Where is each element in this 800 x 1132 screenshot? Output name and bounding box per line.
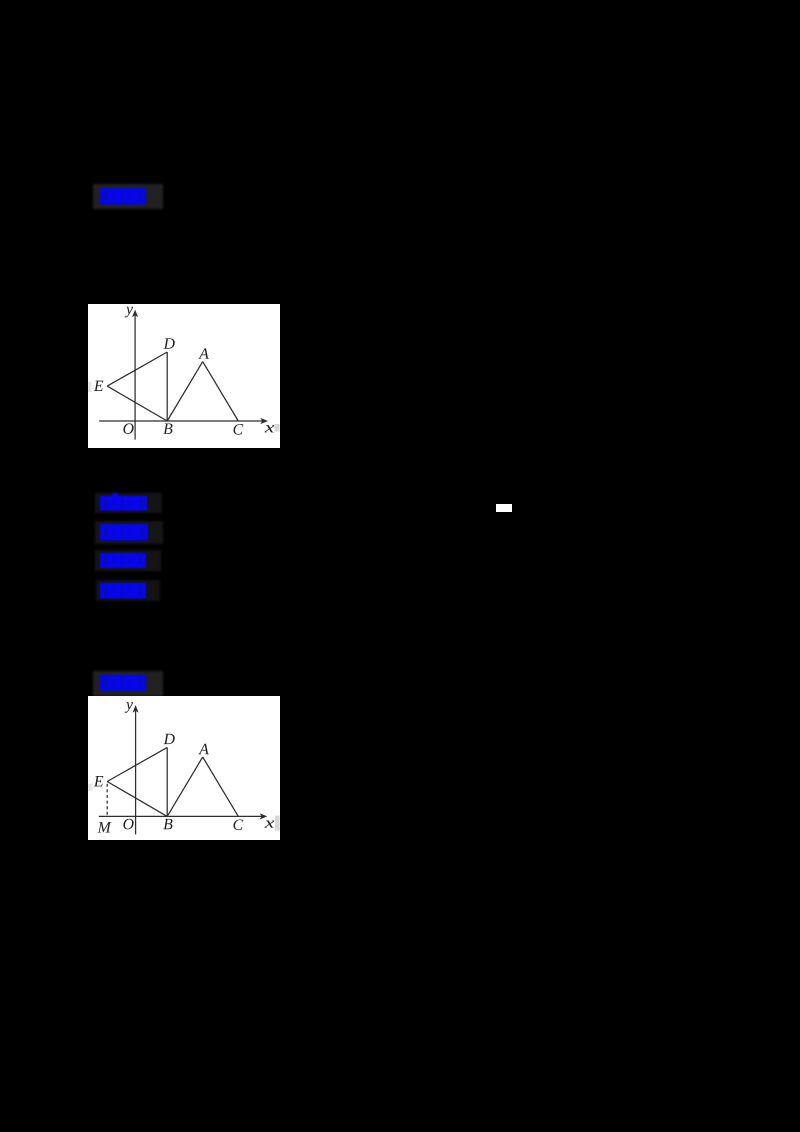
point label B xyxy=(163,819,172,829)
label blue point marker xyxy=(100,583,146,604)
triangle ABC edge A-C xyxy=(203,362,239,421)
label blue answer marker halo xyxy=(95,493,162,514)
point label A xyxy=(198,348,209,358)
axis label x xyxy=(265,425,275,432)
gray scrap left edge xyxy=(88,784,93,791)
label blue section marker 1 xyxy=(100,188,146,210)
gray scrap right of x label xyxy=(275,816,280,831)
figure 1 coordinate plane xyxy=(88,304,280,453)
gray scrap left edge xyxy=(88,382,92,392)
label blue analysis marker halo xyxy=(95,521,163,544)
label blue point marker halo xyxy=(96,580,160,601)
point label C xyxy=(233,424,243,435)
triangle ABC edge B-A xyxy=(167,757,203,816)
triangle DBE edge D-E xyxy=(107,747,167,781)
point label C xyxy=(233,819,243,830)
white panel background xyxy=(88,304,280,448)
x-axis arrowhead xyxy=(260,813,268,819)
point label M xyxy=(97,822,111,832)
x-axis xyxy=(99,815,263,817)
label blue section marker 1 halo xyxy=(93,184,163,210)
triangle DBE edge D-B xyxy=(166,747,168,816)
point label E xyxy=(94,776,104,786)
y-axis arrowhead xyxy=(133,705,139,713)
y-axis xyxy=(134,313,136,440)
origin label O xyxy=(123,819,133,830)
axis label y xyxy=(125,307,133,318)
white panel background xyxy=(88,696,280,840)
label blue answer marker xyxy=(100,496,147,516)
figure 2 coordinate plane with M xyxy=(88,696,280,845)
axis label y xyxy=(125,702,133,713)
point label B xyxy=(163,423,172,433)
label blue solution marker 2 halo xyxy=(93,671,163,696)
point label A xyxy=(198,744,209,754)
point label E xyxy=(94,381,104,391)
label blue solution marker 2 xyxy=(100,675,146,696)
gray scrap right of x label xyxy=(275,424,280,432)
triangle DBE edge D-B xyxy=(166,352,168,421)
dashed segment E-M xyxy=(106,784,108,817)
label blue detail marker halo xyxy=(95,550,161,571)
label blue analysis marker xyxy=(100,524,148,546)
triangle DBE edge E-B xyxy=(107,386,167,421)
origin label O xyxy=(123,423,133,434)
triangle ABC edge A-C xyxy=(203,757,239,816)
label blue detail marker xyxy=(100,553,146,573)
triangle ABC edge B-A xyxy=(167,362,203,421)
x-axis xyxy=(99,420,263,422)
triangle DBE edge E-B xyxy=(107,782,167,817)
triangle DBE edge D-E xyxy=(107,352,167,386)
x-axis arrowhead xyxy=(260,418,268,424)
y-axis arrowhead xyxy=(132,310,138,318)
point label D xyxy=(163,734,174,744)
point label D xyxy=(163,338,174,348)
white inline formula box on answer line xyxy=(496,504,512,512)
axis label x xyxy=(265,821,275,828)
y-axis xyxy=(135,708,137,835)
